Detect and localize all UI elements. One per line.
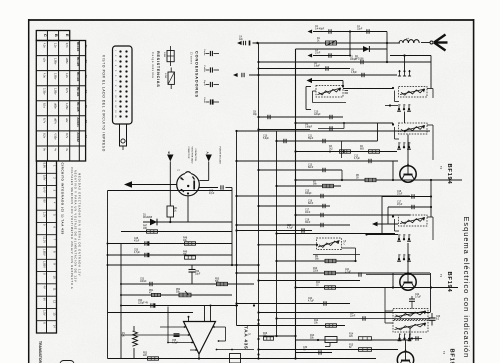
svg-text:6: 6: [410, 334, 411, 336]
wire T3 emitter right: [401, 286, 458, 288]
wire R51 row: [121, 294, 232, 296]
table IC voltages values: [42, 163, 56, 329]
svg-text:u87v: u87v: [54, 118, 58, 124]
svg-text:12: 12: [52, 300, 56, 303]
label T2: [439, 164, 452, 185]
node B arrow: [167, 152, 173, 162]
wire op-amp left in 2: [121, 334, 190, 336]
svg-text:B: B: [54, 34, 59, 37]
label R50: [215, 279, 220, 284]
label T4: [442, 349, 455, 363]
potentiometer P1 zigzag: [133, 326, 138, 359]
svg-text:8,7v: 8,7v: [43, 118, 47, 124]
resistor R49: [185, 256, 196, 259]
wire row 62: [259, 61, 432, 63]
junction row128: [294, 122, 296, 124]
svg-text:1,85v: 1,85v: [54, 73, 58, 80]
wire FI4 under: [313, 254, 342, 256]
legend capacitor symbol 3: [206, 82, 220, 87]
IF transformer FI3: [392, 123, 427, 134]
wire row 215: [296, 214, 411, 216]
svg-text:5,8V: 5,8V: [42, 163, 46, 169]
capacitor C17: [321, 213, 323, 217]
capacitor C11: [323, 139, 325, 143]
op-amp output wire: [198, 354, 200, 359]
svg-text:BF195: BF195: [449, 349, 455, 363]
svg-text:4V: 4V: [42, 285, 46, 288]
wire B arrow down: [169, 162, 171, 207]
svg-text:6,4V: 6,4V: [42, 187, 46, 193]
svg-text:1,85V: 1,85V: [42, 261, 46, 268]
transistor T3: [400, 271, 416, 290]
junction r179: [294, 179, 296, 181]
resistor R6: [365, 178, 376, 181]
trimmer R52: [179, 291, 191, 297]
wire row 161: [235, 160, 398, 162]
label R1: [317, 38, 321, 43]
junction row62 a: [257, 61, 259, 63]
wire row 303: [235, 302, 350, 304]
svg-text:u85v: u85v: [54, 103, 58, 109]
wire row 358: [237, 358, 377, 360]
package outline drawing: [60, 361, 74, 363]
label C19: [305, 220, 311, 225]
label C26: [436, 316, 441, 321]
svg-text:VISTO POR EL LADO DEL CIRCUITO: VISTO POR EL LADO DEL CIRCUITO IMPRESO: [102, 55, 106, 152]
wire into FI4: [259, 244, 317, 246]
label C13: [354, 156, 361, 161]
label R13: [310, 335, 315, 340]
svg-text:1,85V: 1,85V: [42, 249, 46, 256]
junction v393b: [392, 286, 394, 288]
svg-text:CIRCUITO INTEGRADO (CI 1): CIRCUITO INTEGRADO (CI 1) TAA 435: [61, 163, 65, 235]
svg-text:CONECTOR: CONECTOR: [187, 147, 189, 159]
connector stem: [120, 124, 127, 150]
IF transformer FI1: [316, 86, 343, 98]
svg-text:Poliést.: Poliést.: [203, 66, 206, 73]
svg-text:BF194: BF194: [76, 72, 80, 82]
resistor R15: [349, 345, 372, 352]
svg-text:5: 5: [405, 105, 406, 107]
svg-text:RESISTENCIAS: RESISTENCIAS: [156, 51, 160, 87]
junction r179b: [341, 179, 343, 181]
svg-text:39nF: 39nF: [305, 222, 311, 224]
svg-text:CONTACTOS: CONTACTOS: [194, 149, 197, 162]
svg-text:5,6pF: 5,6pF: [314, 66, 320, 68]
svg-text:2,35v: 2,35v: [43, 88, 47, 95]
resistor R7: [323, 184, 334, 187]
capacitor C45: [200, 185, 233, 189]
label R51: [149, 290, 154, 295]
svg-text:27µF: 27µF: [397, 194, 403, 196]
svg-text:14: 14: [52, 325, 56, 328]
svg-text:Cerám.: Cerám.: [203, 49, 206, 56]
svg-text:5: 5: [405, 334, 406, 336]
svg-text:4,2v: 4,2v: [43, 43, 47, 49]
label R48: [183, 238, 188, 243]
wire A arrow down: [200, 162, 209, 181]
junction r172: [257, 169, 259, 171]
wire row 265: [108, 264, 259, 266]
resistor R16: [263, 333, 274, 340]
wire row 170: [259, 169, 343, 171]
svg-text:CONDENSADORES: CONDENSADORES: [195, 51, 199, 98]
junction r149: [294, 150, 296, 152]
wire row 231: [235, 229, 312, 231]
wire v393: [392, 161, 394, 180]
legend capacitor symbol 2: [206, 67, 220, 72]
IF transformer FI6a: [393, 309, 428, 320]
wire row 265 ext: [254, 264, 259, 266]
label C6: [314, 63, 320, 68]
wire FI3 entry: [392, 123, 394, 125]
op-amp top pin 2: [204, 306, 206, 322]
svg-text:AD161: AD161: [76, 117, 80, 127]
label R10: [313, 268, 319, 273]
svg-text:82nF: 82nF: [308, 167, 314, 169]
svg-text:27pF: 27pF: [315, 53, 321, 55]
svg-text:22nF: 22nF: [350, 316, 356, 318]
junction bus 7: [257, 353, 259, 355]
wire FI4 right down: [342, 248, 357, 262]
svg-text:6: 6: [410, 143, 411, 145]
wire op-amp left in 1: [160, 326, 186, 328]
wire V x350: [349, 32, 351, 57]
capacitor C8: [362, 73, 364, 77]
IF transformer FI6b: [393, 321, 428, 333]
svg-text:E: E: [65, 34, 70, 37]
label R6: [356, 175, 360, 180]
svg-text:C: C: [43, 34, 48, 37]
svg-text:1,2V: 1,2V: [42, 212, 46, 218]
wire row 352: [296, 352, 333, 354]
svg-text:Carga máxima: Carga máxima: [151, 52, 155, 78]
svg-text:8,7v: 8,7v: [65, 133, 69, 139]
svg-text:4,35v: 4,35v: [54, 133, 58, 140]
wire bus V2: [258, 43, 260, 359]
label C5: [350, 57, 357, 62]
varicap arrow FI5: [372, 222, 398, 227]
wire v3775: [377, 123, 379, 141]
wire op-amp left in 3: [167, 342, 193, 344]
diode D1: [150, 219, 157, 226]
label C48: [134, 238, 140, 243]
wire op-amp left in 4: [190, 349, 198, 351]
caption TAA 435: [244, 326, 250, 349]
svg-text:47µF: 47µF: [209, 193, 215, 195]
label C54: [138, 300, 148, 305]
label C8: [351, 70, 357, 75]
capacitor C6: [326, 66, 328, 70]
junction r261: [275, 260, 277, 262]
capacitor C23: [409, 296, 415, 309]
svg-text:56pF: 56pF: [308, 138, 314, 140]
svg-text:1,25v: 1,25v: [65, 103, 69, 110]
capacitor C27: [277, 313, 431, 321]
junction r149b: [343, 150, 345, 152]
resistor R51: [152, 293, 161, 296]
table transistor voltages grid: [36, 31, 85, 162]
wire row 68: [258, 68, 351, 70]
transistor T2: [400, 163, 416, 182]
svg-text:0,7v: 0,7v: [65, 43, 69, 49]
connector strip PCB edge: [113, 46, 133, 124]
svg-text:Clases: Clases: [190, 52, 194, 65]
svg-text:8,2v: 8,2v: [43, 133, 47, 139]
wire FIB down: [404, 112, 406, 124]
label R47: [143, 226, 148, 231]
junction r358b: [294, 357, 296, 359]
wire right V431 low: [430, 273, 432, 313]
junction r340b: [409, 339, 411, 341]
label C50: [134, 250, 141, 255]
capacitor C55: [172, 334, 180, 345]
wire row 349: [257, 348, 398, 350]
wire row 117: [253, 112, 343, 120]
wire T2 top: [407, 135, 409, 167]
svg-text:NEGATIVO Y PARA UN VOLTAJE: NEGATIVO Y PARA UN VOLTAJE DE ALIMENTACI…: [74, 170, 78, 282]
op-amp top pin 3: [210, 305, 212, 322]
IF transformer FI4: [317, 238, 342, 250]
wire row 2335: [277, 233, 396, 235]
wire diode row: [143, 221, 232, 223]
svg-text:10nF: 10nF: [305, 212, 311, 214]
capacitor C10: [277, 139, 378, 143]
svg-text:10µF: 10µF: [195, 274, 201, 276]
label C2: [315, 26, 325, 31]
svg-text:220k: 220k: [313, 271, 319, 273]
svg-text:FUENTE EN LADO: FUENTE EN LADO: [219, 147, 222, 165]
wire bottom row: [108, 358, 238, 360]
label C53: [140, 279, 147, 284]
wire row 49: [296, 48, 388, 50]
junction bus 8: [275, 335, 277, 337]
wire row 326: [237, 325, 346, 327]
svg-text:0,7v: 0,7v: [65, 88, 69, 94]
svg-text:6V: 6V: [42, 298, 46, 301]
capacitor C9: [305, 124, 344, 131]
wire T3 area pins: [397, 254, 411, 261]
wire row 287: [296, 287, 402, 289]
capacitor C19: [321, 223, 323, 227]
label C1: [357, 26, 363, 31]
legend capacitor symbol 4: [206, 99, 220, 104]
label C45: [209, 191, 215, 196]
resistor R4: [369, 150, 380, 153]
wire row 313: [108, 312, 194, 314]
svg-text:1,5pF: 1,5pF: [351, 72, 357, 74]
label C11: [308, 136, 314, 141]
svg-text:5: 5: [405, 255, 406, 257]
legend resistor 1/2W symbol: [168, 68, 174, 90]
svg-text:125µF 4V: 125µF 4V: [138, 303, 148, 305]
wire 431 to FI3: [421, 118, 431, 120]
svg-text:0,7µF: 0,7µF: [415, 297, 422, 299]
svg-text:82nF: 82nF: [308, 203, 314, 205]
resistor R11: [325, 286, 336, 289]
wire row 55 right: [390, 54, 431, 56]
pins FI3: [397, 142, 411, 149]
junction r358: [257, 357, 259, 359]
svg-text:BF194: BF194: [76, 87, 80, 97]
svg-text:u2v: u2v: [43, 58, 47, 63]
label C52: [195, 271, 201, 276]
svg-text:BF194: BF194: [446, 272, 452, 293]
wire loop left vertical: [107, 191, 109, 359]
table IC voltages grid: [37, 161, 57, 333]
svg-text:1,2v: 1,2v: [65, 73, 69, 79]
wire row 340: [296, 339, 411, 341]
label C3: [315, 50, 321, 55]
wire v342b: [341, 170, 343, 180]
wire bus V1: [236, 131, 238, 326]
label R49: [183, 252, 188, 257]
junction row31: [349, 30, 351, 32]
pins FI1 top: [398, 70, 411, 76]
svg-text:27µF: 27µF: [397, 204, 403, 206]
wire row 273: [235, 272, 430, 274]
capacitor C53: [150, 282, 152, 286]
capacitor C18: [388, 202, 432, 210]
svg-text:4,7µF: 4,7µF: [287, 228, 294, 230]
svg-text:4: 4: [400, 235, 401, 237]
wire connector down: [187, 196, 189, 222]
junction r318: [275, 317, 277, 319]
svg-text:WG9208: WG9208: [143, 217, 153, 219]
resistor R53: [148, 357, 159, 360]
wire row 2345: [365, 233, 398, 235]
junction r203: [257, 205, 259, 207]
junction bus 6: [257, 338, 259, 340]
resistor R14: [349, 334, 372, 341]
svg-text:VOLTAJES MEDIDOS CON VOLTIM: VOLTAJES MEDIDOS CON VOLTIMETRO 20kΩ/V C…: [70, 167, 74, 289]
capacitor C1: [367, 29, 369, 33]
wire row 186: [277, 185, 342, 187]
svg-text:Electr.: Electr.: [203, 98, 206, 104]
junction r210: [294, 214, 296, 216]
junction bus 9: [294, 335, 296, 337]
wire V431 mid: [430, 180, 432, 217]
svg-text:TAA 435: TAA 435: [244, 326, 249, 349]
varicap C2: [308, 29, 332, 33]
op-amp CI1 TAA435: [184, 322, 216, 355]
label R46: [174, 208, 178, 213]
wire V x387: [386, 32, 388, 63]
resistor R10: [325, 271, 336, 274]
pins FI6: [398, 334, 412, 341]
table header C B E: [43, 34, 70, 37]
junction bus 4: [257, 319, 259, 321]
capacitor C48: [145, 241, 149, 245]
IF transformer FI5: [392, 215, 427, 226]
wire FI5 secondary: [395, 219, 400, 231]
varicap C3: [308, 53, 332, 57]
svg-text:4,7µF: 4,7µF: [308, 301, 315, 303]
pins FI2: [397, 104, 411, 111]
wire FI1 secondary: [313, 91, 347, 103]
junction r340a: [317, 339, 319, 341]
wire V x404: [404, 56, 406, 71]
svg-text:6: 6: [410, 105, 411, 107]
inductor L1: [399, 37, 419, 43]
wire v388: [387, 207, 389, 224]
svg-text:VISTO POR LADO: VISTO POR LADO: [191, 147, 194, 164]
junction r186: [275, 185, 277, 187]
wire C54 row: [121, 305, 238, 307]
label R9: [315, 256, 320, 261]
wire row 2545: [342, 254, 361, 256]
label R7: [313, 181, 318, 186]
svg-text:22pF: 22pF: [357, 29, 363, 31]
wire FI5 exit: [427, 217, 433, 240]
capacitor C5: [361, 60, 363, 64]
svg-text:13: 13: [52, 312, 56, 315]
wire op-amp out right: [216, 349, 254, 351]
label R12: [314, 320, 319, 325]
capacitor C14: [323, 168, 325, 172]
table transistor voltages values: [43, 42, 88, 152]
svg-text:10: 10: [52, 276, 56, 279]
svg-text:BF195: BF195: [76, 102, 80, 112]
svg-text:330pF: 330pF: [305, 193, 312, 195]
junction r280: [257, 279, 259, 281]
wire row 1295: [259, 129, 311, 131]
svg-text:u2v: u2v: [65, 118, 69, 123]
wire R16 stub: [264, 338, 277, 340]
label R52: [176, 289, 181, 294]
wire row 31: [313, 31, 387, 33]
wire FI6 left: [385, 310, 393, 312]
label R11: [316, 282, 321, 287]
varicap C7: [233, 73, 244, 77]
svg-text:4: 4: [400, 105, 401, 107]
wire FI1 left loop: [306, 87, 311, 110]
svg-text:5,6pF: 5,6pF: [263, 138, 269, 140]
junction bus 5: [257, 323, 259, 325]
resistor R50: [217, 282, 228, 285]
junction bus 0: [235, 264, 237, 266]
svg-text:5: 5: [405, 235, 406, 237]
svg-text:1,2v: 1,2v: [54, 43, 58, 49]
junction v393: [392, 179, 394, 181]
junction row75: [257, 74, 259, 76]
label C14: [308, 165, 314, 170]
capacitor C26: [429, 313, 436, 326]
svg-text:4: 4: [400, 143, 401, 145]
wire V410: [409, 326, 411, 340]
capacitor C16: [382, 191, 432, 199]
label P1: [122, 333, 126, 338]
wire connector to loop: [231, 188, 233, 266]
junction r151c: [329, 151, 331, 153]
wire v393b: [392, 273, 394, 288]
wire row 261: [277, 260, 356, 262]
resistor R9: [325, 259, 336, 262]
transistor T4: [397, 349, 413, 363]
junction r312: [257, 311, 259, 313]
capacitor C52: [189, 265, 196, 284]
node A arrow: [206, 152, 212, 162]
wire FI2 exit: [427, 89, 433, 99]
svg-text:ant: ant: [406, 37, 409, 40]
wire T4 top: [405, 341, 407, 353]
svg-text:6: 6: [410, 235, 411, 237]
label R53: [143, 353, 148, 358]
svg-text:4: 4: [400, 334, 401, 336]
capacitor C30: [319, 350, 321, 354]
svg-text:4: 4: [400, 255, 401, 257]
resistor R46: [167, 206, 174, 222]
